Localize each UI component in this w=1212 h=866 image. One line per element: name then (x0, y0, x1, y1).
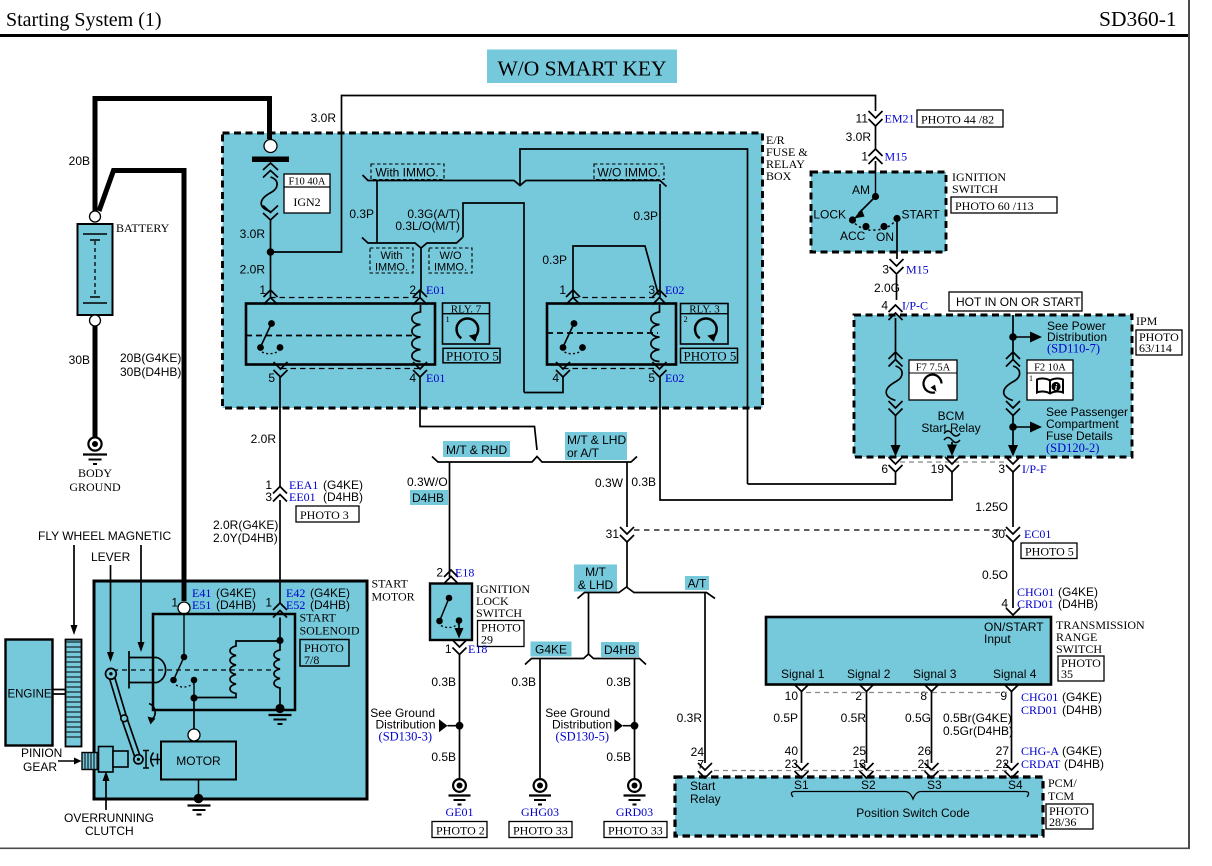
svg-text:ENGINE: ENGINE (7, 689, 51, 701)
svg-text:30: 30 (992, 527, 1006, 541)
svg-text:ACC: ACC (840, 229, 866, 243)
wire START to M15 pin 3 (896, 219, 899, 301)
flywheel pointer arrow (73, 545, 75, 628)
svg-text:4: 4 (552, 371, 559, 385)
svg-text:SWITCH: SWITCH (1056, 642, 1102, 656)
svg-text:or A/T: or A/T (567, 446, 600, 460)
svg-text:0.3L/O(M/T): 0.3L/O(M/T) (395, 219, 460, 233)
start motor box (94, 577, 415, 800)
M/T&LHD + A/T tent split (578, 587, 716, 599)
svg-text:START: START (902, 208, 941, 222)
connector EEA1/EE01 pins 1/3 (265, 478, 363, 504)
transmission range switch box (766, 617, 1145, 685)
PCM pin 24/7 chevrons (691, 745, 712, 778)
ground GRD03 (616, 779, 653, 819)
svg-text:3: 3 (998, 462, 1005, 476)
D4HB label (601, 642, 639, 657)
photo box GE01 (432, 822, 487, 838)
photo box EC01 (1021, 543, 1077, 559)
solenoid coils (194, 618, 284, 707)
svg-text:22: 22 (996, 757, 1010, 771)
svg-text:9: 9 (1000, 689, 1007, 703)
svg-text:CRD01: CRD01 (1017, 597, 1054, 611)
svg-text:M15: M15 (906, 263, 929, 277)
svg-text:(D4HB): (D4HB) (1064, 757, 1104, 771)
IMMO feed split line (363, 149, 748, 408)
label PINION GEAR (21, 746, 82, 774)
svg-text:PCM/: PCM/ (1048, 776, 1077, 790)
wire 2.0R/2.0Y to E42 (279, 500, 281, 603)
svg-text:2.0R: 2.0R (251, 432, 277, 446)
relay RLY3 dashed connector lines (563, 298, 660, 369)
svg-text:I/P-C: I/P-C (902, 299, 928, 313)
svg-text:E02: E02 (665, 371, 684, 385)
svg-text:IMMO.: IMMO. (434, 262, 467, 274)
svg-text:Relay: Relay (690, 792, 721, 806)
svg-text:63/114: 63/114 (1139, 341, 1172, 355)
fusible link bar (252, 157, 289, 163)
svg-text:8: 8 (920, 689, 927, 703)
svg-text:(D4HB): (D4HB) (216, 598, 256, 612)
svg-text:Position Switch Code: Position Switch Code (856, 806, 970, 820)
svg-text:0.5P: 0.5P (773, 711, 798, 725)
right border (1188, 0, 1190, 849)
svg-text:(SD130-3): (SD130-3) (379, 730, 432, 744)
svg-text:(SD110-7): (SD110-7) (1047, 342, 1100, 356)
connector E42/E52 chevrons (265, 586, 350, 618)
svg-text:PINION: PINION (21, 746, 62, 760)
svg-text:PHOTO 5: PHOTO 5 (1025, 545, 1074, 559)
svg-text:D4HB: D4HB (412, 491, 444, 505)
With IMMO small dashed label (370, 248, 413, 274)
photo box GRD03 (604, 822, 667, 838)
svg-text:BODY: BODY (78, 466, 112, 480)
svg-text:F7 7.5A: F7 7.5A (916, 363, 951, 374)
relay RLY7 pin4 chevron (413, 362, 427, 377)
svg-text:0.3B: 0.3B (631, 475, 656, 489)
relay RLY7 pin5 chevron (274, 362, 288, 377)
svg-text:1: 1 (1029, 374, 1033, 383)
connector CHG01/CRD01 pin 4 (1001, 585, 1098, 615)
svg-text:5: 5 (268, 371, 275, 385)
svg-text:2: 2 (436, 566, 443, 580)
svg-text:S3: S3 (927, 778, 942, 792)
flywheel (66, 640, 83, 747)
svg-text:0.5G: 0.5G (905, 711, 931, 725)
IPM pin 3 I/P-F (998, 457, 1047, 476)
svg-text:3: 3 (648, 283, 655, 297)
svg-text:E18: E18 (455, 566, 474, 580)
relay RLY7 pin2 chevron (413, 290, 427, 305)
HOT IN ON OR START box (949, 292, 1082, 311)
svg-text:START: START (300, 611, 337, 625)
rotation arrow (148, 704, 156, 725)
ignition switch internals (813, 172, 940, 244)
fuse F2 10A label box (1027, 360, 1073, 400)
label OVERRUNNING CLUTCH (64, 771, 154, 838)
svg-text:PHOTO 5: PHOTO 5 (446, 348, 499, 363)
svg-text:M15: M15 (885, 150, 908, 164)
connector labels CHG01/CRD01 (1021, 690, 1102, 717)
svg-text:W/O SMART KEY: W/O SMART KEY (497, 57, 666, 81)
svg-text:0.5O: 0.5O (982, 568, 1008, 582)
solenoid ground (269, 704, 292, 724)
svg-text:(D4HB): (D4HB) (1062, 703, 1102, 717)
svg-text:E02: E02 (665, 283, 684, 297)
svg-text:& LHD: & LHD (578, 578, 614, 592)
relay RLY3 id box (681, 304, 729, 345)
magnet bracket (129, 651, 166, 689)
IPM arrow to pin 3 (1008, 445, 1018, 457)
svg-text:2.0R: 2.0R (240, 263, 266, 277)
svg-text:20B: 20B (69, 154, 90, 168)
svg-text:31: 31 (606, 527, 620, 541)
svg-text:CHG01: CHG01 (1021, 690, 1058, 704)
svg-text:SWITCH: SWITCH (952, 182, 998, 196)
svg-text:START: START (372, 577, 409, 591)
wire 0.3B E02 pin5 to IPM pin19 (660, 377, 952, 500)
relay RLY3 pin1-pin3 link (573, 246, 659, 297)
M/T & RHD label (443, 441, 510, 457)
wire 0.3W branch to 31 (626, 462, 628, 587)
wire M/T&LHD branch (588, 593, 590, 655)
svg-text:IGN2: IGN2 (293, 195, 320, 209)
wire 0.3P to relay RLY3 pin3 (659, 184, 661, 297)
svg-text:0.3B: 0.3B (431, 675, 456, 689)
svg-text:1: 1 (559, 283, 566, 297)
svg-text:0.3R: 0.3R (677, 711, 703, 725)
svg-text:6: 6 (881, 462, 888, 476)
see ground distribution SD130-5 (545, 706, 638, 744)
svg-text:2: 2 (855, 689, 862, 703)
svg-text:4: 4 (409, 371, 416, 385)
ground GE01 (446, 779, 474, 819)
svg-text:4: 4 (881, 299, 888, 313)
relay RLY3 pin1 chevron (566, 290, 580, 305)
connector E18 pin 1 (445, 640, 488, 656)
G4KE label (531, 642, 572, 657)
svg-text:1.25O: 1.25O (975, 500, 1008, 514)
svg-text:Signal 4: Signal 4 (993, 667, 1037, 681)
svg-text:5: 5 (648, 371, 655, 385)
IPM pin 19 (931, 457, 959, 476)
svg-text:1: 1 (861, 150, 868, 164)
svg-text:D4HB: D4HB (604, 643, 636, 657)
fuse F10 40A symbol (261, 163, 278, 220)
motor M (161, 742, 236, 780)
svg-text:2: 2 (684, 314, 688, 324)
svg-text:OVERRUNNING: OVERRUNNING (64, 811, 154, 825)
svg-text:0.5B: 0.5B (431, 750, 456, 764)
svg-text:Signal 2: Signal 2 (847, 667, 891, 681)
svg-text:LOCK: LOCK (813, 208, 846, 222)
svg-text:MOTOR: MOTOR (372, 590, 415, 604)
svg-text:0.3P: 0.3P (542, 253, 567, 267)
svg-text:EE01: EE01 (289, 490, 316, 504)
svg-text:0.5B: 0.5B (606, 750, 631, 764)
relay RLY7 pin1 chevron (264, 290, 278, 305)
lever pointer arrow (110, 565, 112, 655)
connector M15 pin 1 (861, 149, 907, 164)
svg-text:EC01: EC01 (1024, 527, 1051, 541)
svg-text:PHOTO 60 /113: PHOTO 60 /113 (955, 199, 1034, 213)
svg-text:30B(D4HB): 30B(D4HB) (120, 365, 181, 379)
with/wo immo merge to relay1 pin2 (362, 238, 463, 298)
fuse F10 40A label box (284, 174, 330, 213)
wire 3.0R EM21 to M15 (875, 126, 877, 172)
ground GHG03 (521, 779, 559, 819)
svg-text:28/36: 28/36 (1049, 815, 1076, 829)
svg-text:E51: E51 (192, 598, 211, 612)
wire A/T branch (704, 593, 706, 764)
photo box GHG03 (509, 822, 572, 838)
svg-text:F10 40A: F10 40A (288, 177, 325, 188)
see passenger fuse details branch (1009, 405, 1128, 455)
see ground distribution SD130-3 (370, 706, 463, 744)
IPM fuse F7 wire (886, 318, 902, 450)
IPM power distribution wire (1004, 315, 1020, 450)
battery positive thick wire (95, 99, 270, 213)
svg-text:3.0R: 3.0R (311, 111, 337, 125)
svg-text:GRD03: GRD03 (616, 805, 653, 819)
E/R fuse & relay box (223, 133, 809, 408)
W/O IMMO. label (594, 164, 664, 180)
svg-text:0.5Gr(D4HB): 0.5Gr(D4HB) (943, 724, 1013, 738)
svg-text:GROUND: GROUND (69, 480, 121, 494)
connector EC01 pin 30 (992, 527, 1052, 542)
wire relay RLY7 pin5 down (279, 377, 281, 487)
motor connector circle (188, 729, 200, 741)
IPM F7 arrow to pin 6 (891, 445, 901, 457)
svg-text:TCM: TCM (1048, 789, 1074, 803)
wire lock switch to GE01 (459, 654, 461, 779)
PCM/TCM box (675, 776, 1093, 836)
svg-text:1: 1 (171, 596, 178, 610)
svg-text:1: 1 (446, 314, 450, 324)
svg-text:RLY. 7: RLY. 7 (451, 304, 482, 316)
svg-text:IMMO.: IMMO. (375, 262, 408, 274)
svg-text:Signal 1: Signal 1 (781, 667, 825, 681)
engine block (6, 640, 53, 746)
wire 0.3P with-immo branch (376, 181, 378, 244)
wire junction to EM21 feed (271, 96, 876, 253)
dashed joint connector line (634, 529, 1006, 531)
wire 0.3W/O D4HB branch (449, 462, 451, 577)
svg-text:0.3W/O: 0.3W/O (407, 475, 448, 489)
svg-text:40: 40 (785, 744, 799, 758)
relay RLY7 photo box (443, 348, 500, 363)
relay RLY7 id box (443, 303, 490, 344)
bottom border (0, 848, 1190, 850)
svg-text:3: 3 (265, 490, 272, 504)
battery BT1 (78, 211, 170, 326)
svg-text:(SD120-2): (SD120-2) (1046, 441, 1099, 455)
With IMMO. label (371, 164, 444, 180)
svg-text:SD360-1: SD360-1 (1099, 7, 1177, 31)
svg-text:F2 10A: F2 10A (1034, 363, 1066, 374)
svg-text:SWITCH: SWITCH (476, 606, 522, 620)
svg-text:GHG03: GHG03 (521, 805, 559, 819)
relay RLY3 pin5 chevron (653, 362, 667, 377)
connector E41/E51 circle (171, 586, 256, 614)
relay RLY3 switch contact (560, 320, 586, 354)
svg-text:CLUTCH: CLUTCH (85, 824, 134, 838)
svg-text:27: 27 (996, 744, 1010, 758)
svg-text:M/T: M/T (585, 565, 606, 579)
svg-text:GEAR: GEAR (23, 760, 57, 774)
relay RLY7 coil (412, 305, 421, 362)
svg-text:0.3W: 0.3W (595, 476, 624, 490)
svg-text:PHOTO 33: PHOTO 33 (608, 824, 663, 838)
relay RLY3 pin3 chevron (653, 290, 667, 305)
solenoid junction node (190, 694, 197, 701)
svg-text:4: 4 (1001, 597, 1008, 611)
svg-text:13: 13 (853, 757, 867, 771)
relay RLY3 box (547, 304, 676, 365)
svg-text:PHOTO 5: PHOTO 5 (684, 348, 737, 363)
svg-text:SOLENOID: SOLENOID (300, 624, 360, 638)
svg-text:Signal 3: Signal 3 (913, 667, 957, 681)
svg-text:(D4HB): (D4HB) (1058, 597, 1098, 611)
PCM pin chevrons (795, 763, 1019, 778)
svg-text:7: 7 (697, 758, 704, 772)
M/T & LHD or A/T label (565, 432, 627, 460)
TRS dashed connector line (806, 692, 1007, 694)
svg-text:0.3P: 0.3P (633, 209, 658, 223)
svg-text:Starting System (1): Starting System (1) (6, 9, 162, 31)
connector E18 pin 2 (436, 566, 474, 584)
svg-text:AM: AM (852, 183, 870, 197)
photo box EEA1 (296, 506, 359, 522)
pinion gear (82, 747, 161, 773)
W/O SMART KEY header (487, 50, 677, 84)
svg-text:2.0Y(D4HB): 2.0Y(D4HB) (213, 531, 278, 545)
svg-text:HOT IN ON OR START: HOT IN ON OR START (956, 295, 1081, 309)
wire 0.3G/0.3L immo-less branch (395, 203, 563, 393)
A/T label (685, 576, 709, 591)
magnetic pointer arrow (140, 545, 142, 645)
joint connector 31 (606, 527, 634, 542)
lever arm (106, 668, 143, 764)
relay RLY3 coil (651, 305, 660, 362)
BCM start relay (921, 409, 980, 456)
svg-text:FLY WHEEL MAGNETIC: FLY WHEEL MAGNETIC (38, 529, 171, 543)
photo box EM21 (917, 110, 1003, 127)
relay RLY7 dashed connector lines (270, 298, 420, 369)
svg-text:0.3B: 0.3B (606, 675, 631, 689)
svg-text:S1: S1 (794, 778, 809, 792)
wire I/P-F to EC01 (1012, 472, 1014, 608)
svg-text:RLY. 3: RLY. 3 (689, 304, 720, 316)
TRS pin chevrons (795, 685, 1019, 692)
svg-text:CRD01: CRD01 (1021, 703, 1058, 717)
svg-text:S2: S2 (861, 778, 876, 792)
svg-text:I/P-F: I/P-F (1022, 462, 1047, 476)
svg-text:30B: 30B (69, 353, 90, 367)
svg-text:0.5Br(G4KE): 0.5Br(G4KE) (943, 711, 1012, 725)
svg-text:2.0G: 2.0G (874, 281, 900, 295)
svg-text:1: 1 (265, 596, 272, 610)
solenoid dashed axis line (113, 669, 272, 671)
TRS signal wires (802, 692, 1012, 764)
svg-text:BOX: BOX (766, 169, 792, 183)
IPM box (854, 314, 1182, 457)
wire fuse to relay1 pin1 (270, 220, 272, 298)
svg-text:A/T: A/T (688, 577, 707, 591)
svg-text:W/O IMMO.: W/O IMMO. (597, 166, 660, 180)
see power distribution branch (1009, 319, 1107, 356)
svg-text:0.5R: 0.5R (841, 711, 867, 725)
ignition switch box (811, 170, 1057, 252)
svg-text:E01: E01 (426, 283, 445, 297)
svg-text:PHOTO 33: PHOTO 33 (513, 824, 568, 838)
top rule (0, 34, 1189, 37)
M/T&RHD / M/T&LHD split (432, 457, 637, 463)
svg-text:LEVER: LEVER (91, 550, 131, 564)
relay RLY7 switch contact (257, 320, 283, 354)
G4KE / D4HB split (525, 654, 646, 665)
svg-text:PHOTO 3: PHOTO 3 (300, 508, 349, 522)
IPM bottom dashed connector line (900, 461, 1007, 463)
svg-text:(D4HB): (D4HB) (323, 490, 363, 504)
svg-text:7/8: 7/8 (304, 653, 319, 667)
W/O IMMO small dashed label (429, 248, 472, 274)
svg-text:With: With (381, 250, 403, 262)
svg-text:1: 1 (259, 283, 266, 297)
svg-text:E18: E18 (468, 642, 487, 656)
svg-text:26: 26 (918, 744, 932, 758)
svg-text:G4KE: G4KE (535, 643, 567, 657)
svg-text:S4: S4 (1008, 778, 1023, 792)
wire relay RLY7 pin4 to split (420, 377, 537, 450)
svg-text:PHOTO 2: PHOTO 2 (436, 824, 485, 838)
svg-text:35: 35 (1061, 667, 1073, 681)
fusible link connector circle (264, 140, 277, 153)
svg-text:11: 11 (856, 112, 869, 126)
start solenoid box (153, 611, 360, 711)
IPM pin 6 (881, 457, 902, 476)
relay RLY7 box (246, 304, 435, 365)
svg-text:0.3B: 0.3B (511, 675, 536, 689)
svg-text:MOTOR: MOTOR (176, 754, 221, 768)
svg-text:21: 21 (918, 757, 932, 771)
body ground (69, 437, 121, 494)
svg-text:PHOTO 44 /82: PHOTO 44 /82 (921, 113, 994, 127)
svg-text:25: 25 (853, 744, 867, 758)
relay RLY3 photo box (681, 348, 738, 363)
svg-text:19: 19 (931, 462, 945, 476)
svg-text:With IMMO.: With IMMO. (375, 166, 438, 180)
svg-text:3.0R: 3.0R (846, 130, 872, 144)
wire IPM pin6 to W/O IMMO feed (748, 408, 896, 484)
thick wire battery to start motor E41 (99, 171, 184, 602)
connector labels CHG-A/CRDAT (1021, 744, 1104, 771)
svg-text:BATTERY: BATTERY (116, 221, 170, 235)
fuse F7 7.5A label box (909, 360, 957, 400)
svg-text:Start: Start (690, 779, 716, 793)
svg-text:IPM: IPM (1136, 314, 1158, 328)
svg-text:10: 10 (785, 689, 799, 703)
svg-text:W/O: W/O (440, 250, 462, 262)
junction node fuse output (267, 248, 275, 256)
connector EM21 pin 11 (856, 111, 915, 126)
svg-text:CRDAT: CRDAT (1021, 757, 1061, 771)
motor ground (188, 780, 211, 815)
svg-text:(SD130-5): (SD130-5) (556, 730, 609, 744)
solenoid switch (170, 614, 197, 698)
svg-text:0.3P: 0.3P (349, 207, 374, 221)
svg-text:(G4KE): (G4KE) (1062, 744, 1102, 758)
